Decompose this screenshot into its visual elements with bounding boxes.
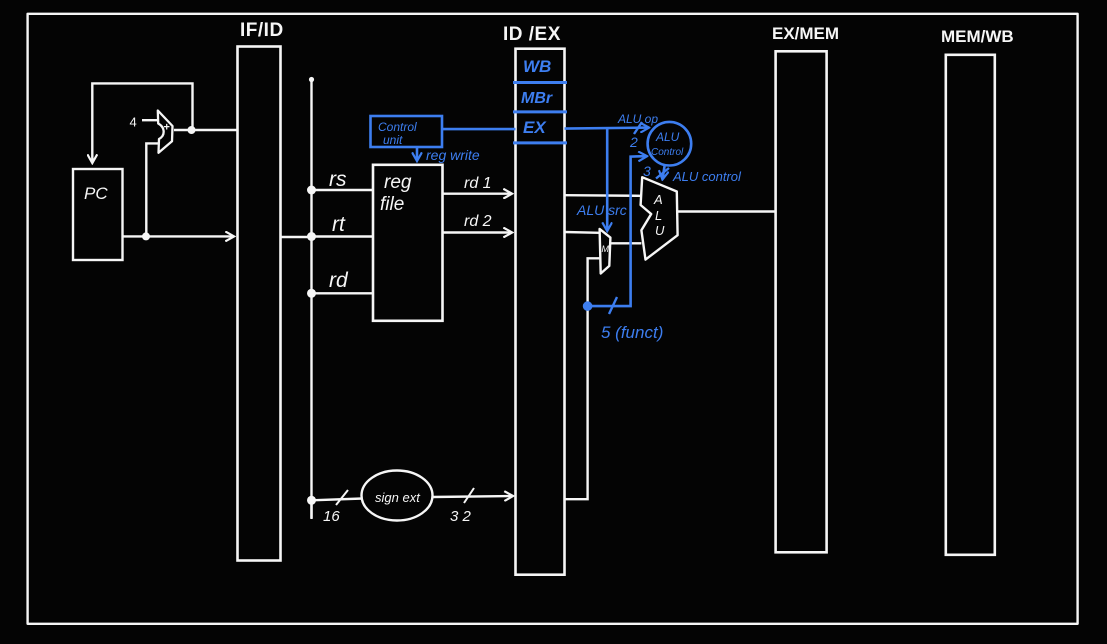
wire rt to reg file <box>312 235 374 237</box>
register MEM/WB <box>946 55 995 555</box>
node rs tap <box>307 186 316 195</box>
wire immediate to mux lower input <box>565 258 601 499</box>
register ID/EX <box>516 49 565 575</box>
wire instruction bus vertical <box>310 80 312 518</box>
ALU control circle <box>648 122 692 166</box>
svg-text:ALU: ALU <box>655 130 680 144</box>
svg-text:sign ext: sign ext <box>375 490 421 505</box>
node rt tap <box>307 232 316 241</box>
control unit box <box>371 116 443 147</box>
mux ALUsrc <box>600 229 611 274</box>
wire ALU control to ALU <box>663 166 665 179</box>
svg-text:ALU control: ALU control <box>672 169 742 184</box>
node PC output junction <box>142 232 150 240</box>
register EX/MEM <box>776 51 827 552</box>
bus width slash funct <box>609 297 617 314</box>
wire sign extend to ID/EX <box>433 496 513 497</box>
node immediate tap <box>307 496 316 505</box>
svg-text:PC: PC <box>84 184 108 203</box>
wire control unit to EX section <box>442 128 516 131</box>
svg-text:ALU src: ALU src <box>576 202 627 218</box>
wire rd to reg file <box>312 292 374 294</box>
svg-text:reg write: reg write <box>426 147 480 163</box>
bus width slash 32 <box>464 488 474 503</box>
PC box <box>73 169 123 260</box>
svg-text:ALU op: ALU op <box>617 112 658 126</box>
wire rd2 from ID/EX to mux <box>565 231 600 234</box>
wire ALU output to EX/MEM <box>678 210 776 212</box>
wire ALU op from EX section to ALU control <box>565 128 649 129</box>
svg-text:ID /EX: ID /EX <box>503 24 561 45</box>
wire rs to reg file <box>312 189 374 191</box>
MBr section divider <box>513 110 567 113</box>
wire rd1 from ID/EX to ALU input <box>565 194 642 197</box>
adder PC+4 <box>158 111 173 153</box>
bus width slash ALU control <box>656 168 669 179</box>
wire PC output up to adder input <box>146 143 159 236</box>
svg-text:L: L <box>655 208 662 223</box>
svg-text:2: 2 <box>629 134 638 150</box>
svg-text:A: A <box>653 192 663 207</box>
WB section divider <box>513 81 567 84</box>
node bus top <box>309 77 314 82</box>
svg-text:3 2: 3 2 <box>450 508 472 525</box>
svg-text:Control: Control <box>651 147 684 158</box>
wire rd1 to ID/EX <box>443 192 512 194</box>
svg-text:EX: EX <box>523 118 547 137</box>
wire rd2 to ID/EX <box>443 231 512 233</box>
wire tap to sign extend <box>312 499 363 501</box>
svg-text:file: file <box>380 194 404 215</box>
svg-text:WB: WB <box>523 57 551 76</box>
sign extend ellipse <box>362 471 433 521</box>
svg-text:3: 3 <box>643 163 651 179</box>
node rd tap <box>307 289 316 298</box>
ALU <box>641 177 678 259</box>
wire adder output to IF/ID <box>174 129 238 131</box>
bus width slash 16 <box>336 490 348 505</box>
svg-text:4: 4 <box>130 115 137 130</box>
svg-text:MEM/WB: MEM/WB <box>941 27 1014 46</box>
wire reg write control <box>416 147 419 160</box>
svg-text:MBr: MBr <box>521 90 553 107</box>
register IF/ID <box>238 47 281 561</box>
svg-text:rs: rs <box>329 168 347 191</box>
EX section divider <box>513 141 567 144</box>
svg-text:EX/MEM: EX/MEM <box>772 24 839 43</box>
svg-text:rd 2: rd 2 <box>464 213 492 230</box>
svg-text:5 (funct): 5 (funct) <box>601 323 663 342</box>
wire mux output to ALU input <box>610 242 641 244</box>
reg file box <box>373 165 443 321</box>
svg-text:rd: rd <box>329 269 349 292</box>
wire funct field to ALU control <box>588 156 646 306</box>
svg-text:+: + <box>164 122 170 134</box>
svg-text:M: M <box>602 244 610 254</box>
node funct tap (blue) <box>583 301 593 311</box>
wire immediate stub below tap <box>310 500 312 519</box>
wire PC output to IF/ID <box>123 235 233 237</box>
svg-text:U: U <box>655 223 665 238</box>
svg-text:reg: reg <box>384 172 412 193</box>
svg-text:rt: rt <box>332 213 346 236</box>
svg-text:IF/ID: IF/ID <box>240 20 284 41</box>
svg-text:rd 1: rd 1 <box>464 175 492 192</box>
wire ALU src control to mux <box>606 129 609 230</box>
wire IF/ID to instruction bus <box>281 236 312 238</box>
svg-text:unit: unit <box>383 133 403 147</box>
bus width slash ALU op <box>634 122 642 134</box>
svg-text:Control: Control <box>378 120 417 134</box>
svg-text:16: 16 <box>323 508 340 525</box>
wire 4 to adder <box>142 119 158 121</box>
node adder output junction <box>188 126 196 134</box>
wire PC feedback from adder output up and into PC top <box>92 83 192 162</box>
